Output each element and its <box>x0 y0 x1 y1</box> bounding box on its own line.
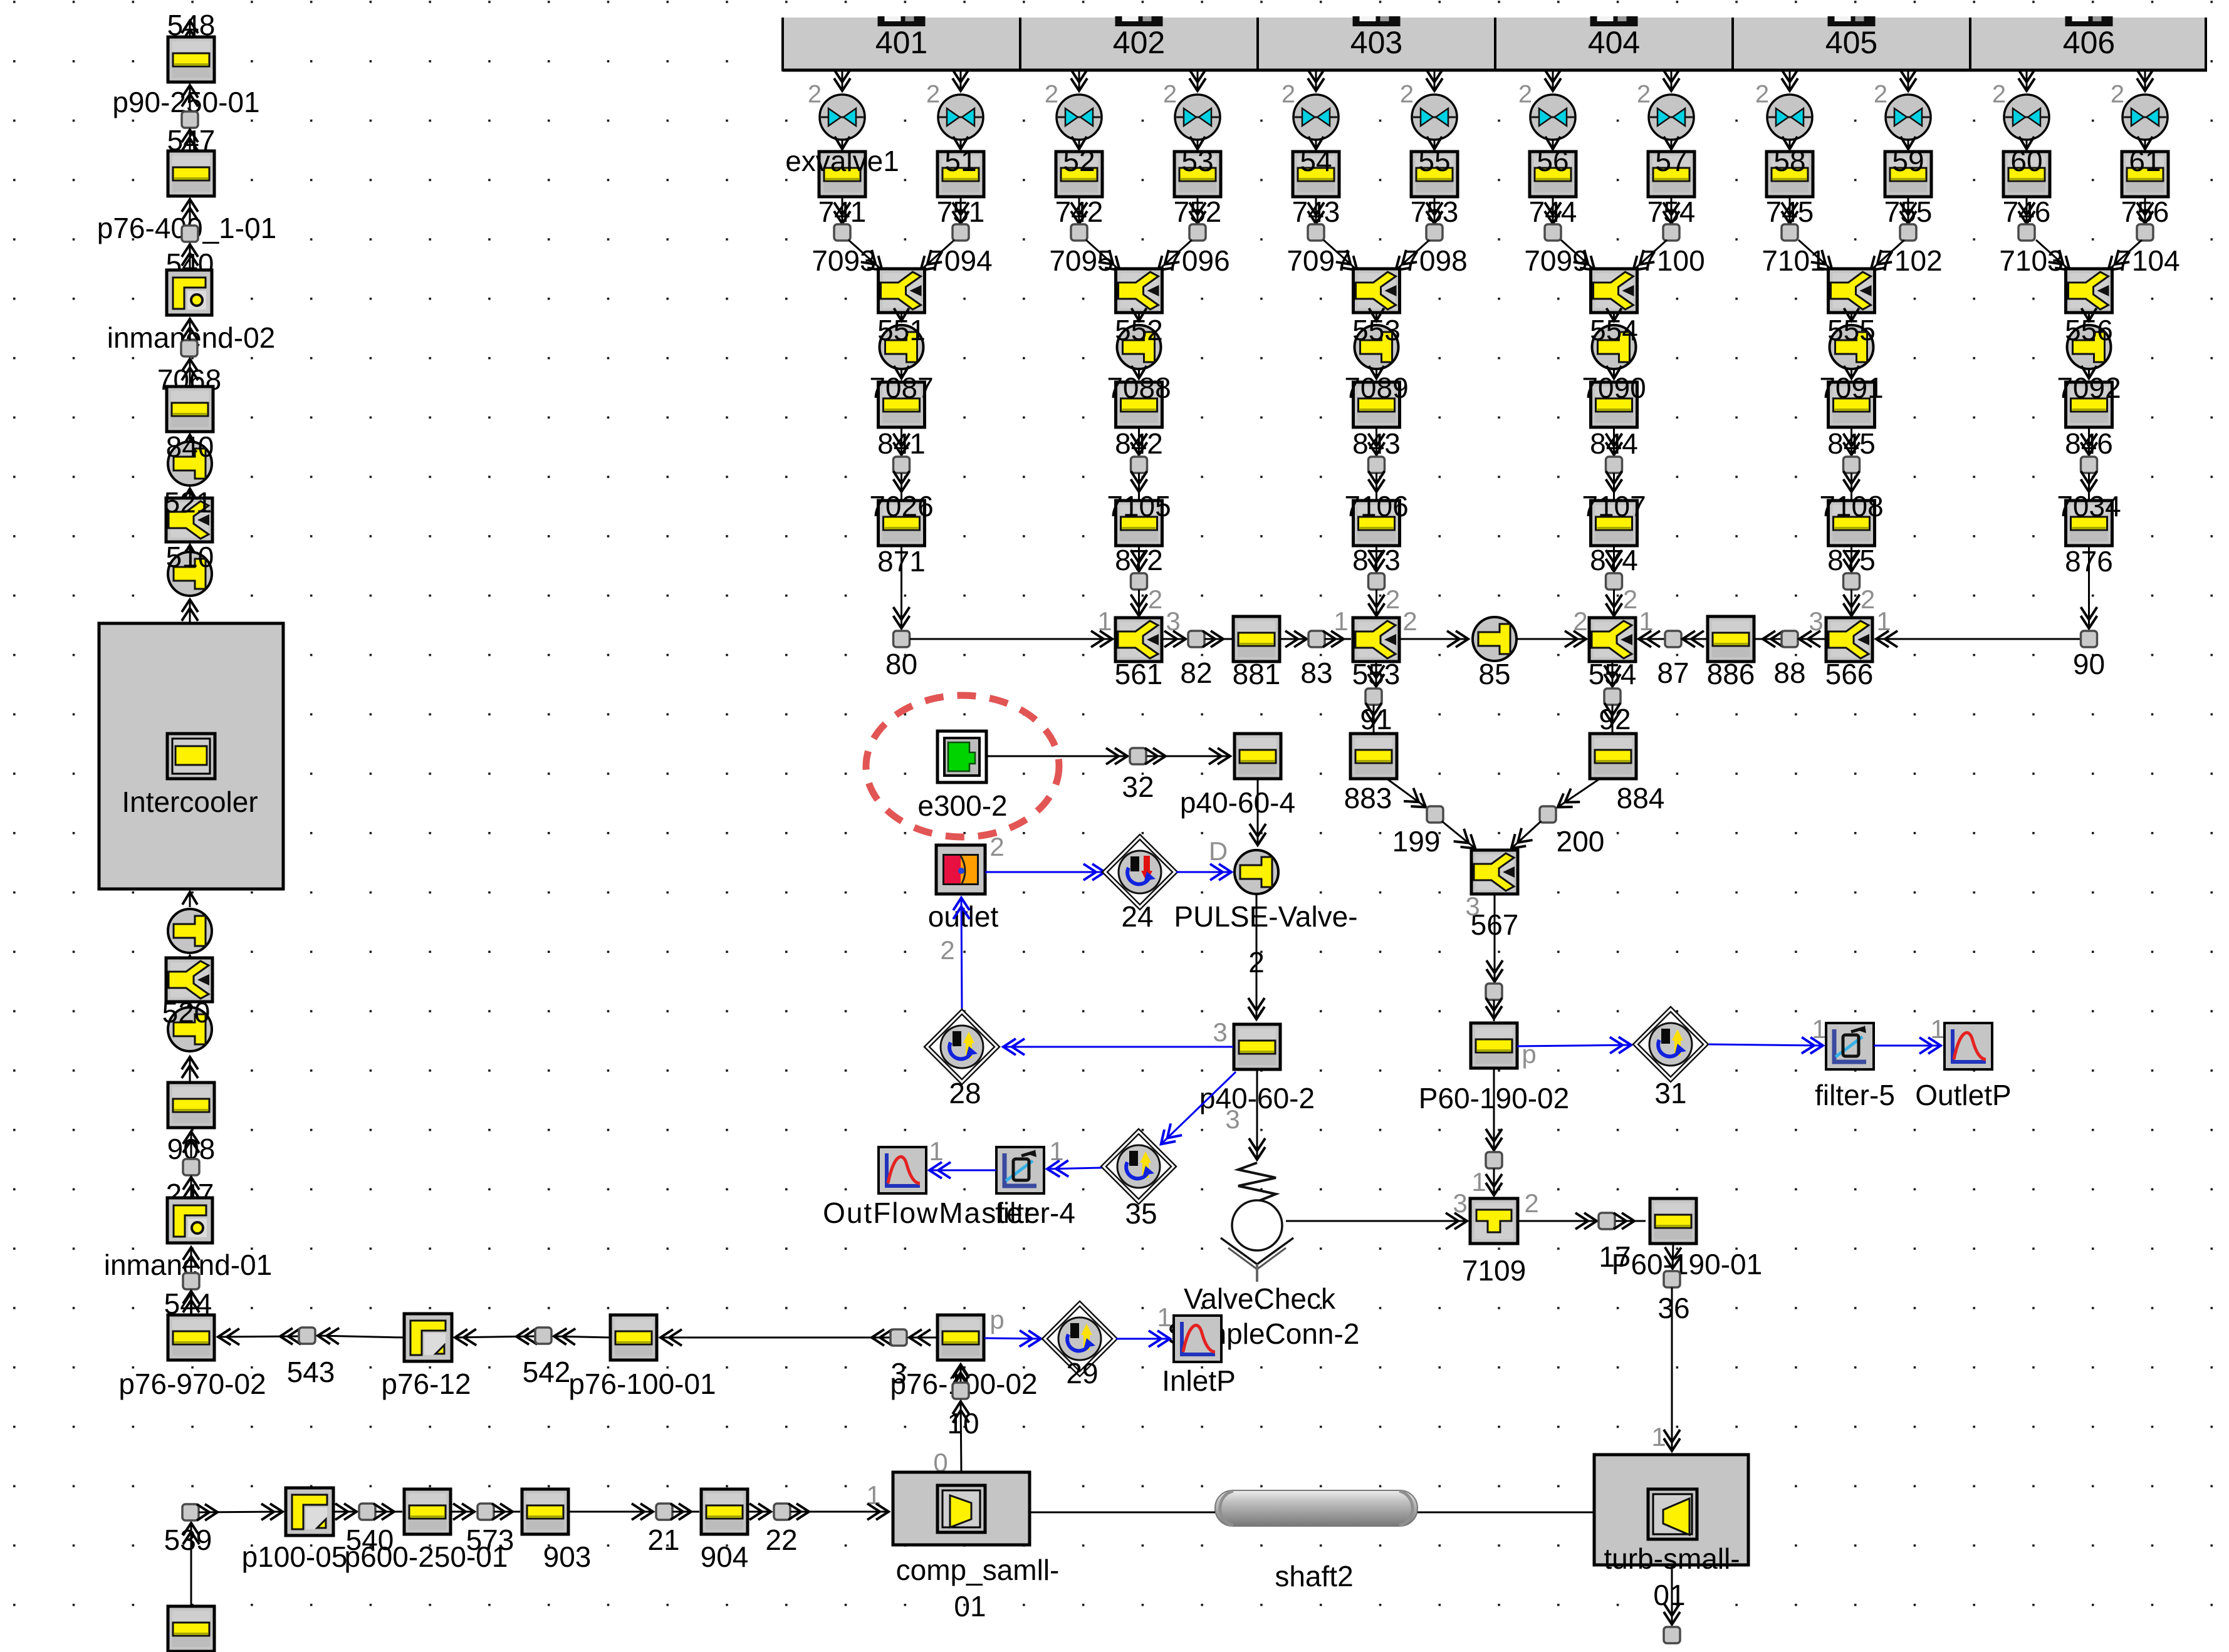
svg-text:405: 405 <box>1825 25 1877 60</box>
wire junction 566 to node 88 <box>1798 638 1826 640</box>
manifold end inmanend-02 <box>167 270 212 315</box>
svg-text:7109: 7109 <box>1462 1254 1526 1287</box>
wire p600-250-01 to node 573 <box>451 1511 475 1513</box>
node 755 <box>1900 224 1916 241</box>
wire valve 7 to pipe 56 <box>1552 140 1554 149</box>
node 873 <box>1369 573 1385 590</box>
blue wire 31 to filter-5 <box>1709 1044 1824 1046</box>
wire junction to flowsplit 552 <box>1138 313 1140 321</box>
wire valve 6 to pipe 55 <box>1434 140 1436 149</box>
node 200 <box>1540 806 1556 823</box>
svg-text:31: 31 <box>1654 1077 1686 1109</box>
wire pipe 7088 to node 842 <box>1138 427 1140 455</box>
svg-text:filter-5: filter-5 <box>1815 1079 1895 1111</box>
svg-text:92: 92 <box>1599 703 1631 735</box>
pipe bend p76-12 <box>404 1314 452 1361</box>
shaft link shaft2 to turbine <box>1417 1512 1594 1514</box>
wire elbow 540 to node <box>189 244 191 269</box>
wire cylinder 404 to valve 8 <box>1671 71 1673 91</box>
wire flowsplit to junction <box>189 545 191 551</box>
svg-text:556: 556 <box>2065 314 2113 346</box>
pipe p40-60-4 <box>1235 734 1281 779</box>
wire pipe 7108 to node <box>1851 546 1852 572</box>
svg-text:200: 200 <box>1557 825 1605 858</box>
node 744 <box>1545 224 1561 241</box>
svg-text:p76-12: p76-12 <box>381 1368 471 1400</box>
cylinder separator 3 <box>1731 18 1734 70</box>
node 82 <box>1188 631 1204 647</box>
wire 7109 to node 17 <box>1518 1220 1597 1222</box>
svg-text:904: 904 <box>701 1540 749 1573</box>
pipe 904 <box>701 1489 748 1534</box>
wire pipe 54 to node 743 <box>1315 197 1317 224</box>
svg-text:3: 3 <box>1225 1104 1240 1134</box>
wire pipe 60 to node 746 <box>2026 197 2028 224</box>
node 539 <box>182 1504 199 1520</box>
pipe 886 <box>1708 616 1754 662</box>
wire pipe 904 to node 22 <box>748 1511 771 1513</box>
svg-text:7092: 7092 <box>2057 371 2121 404</box>
svg-text:7091: 7091 <box>1819 371 1883 404</box>
cylinder separator 1 <box>1256 18 1259 70</box>
wire pipe 7092 to node 846 <box>2088 427 2090 455</box>
svg-text:7090: 7090 <box>1582 371 1646 404</box>
exhaust valve 3 <box>1057 95 1102 140</box>
svg-text:2: 2 <box>1148 584 1162 614</box>
svg-text:83: 83 <box>1300 657 1332 689</box>
compressor comp_samll-01 <box>893 1472 1030 1545</box>
svg-text:1: 1 <box>1097 606 1112 636</box>
wire node 874 to manifold junction <box>1613 590 1615 616</box>
pipe 7105 <box>1116 501 1162 546</box>
pipe 7090 <box>1591 382 1637 427</box>
svg-text:7099: 7099 <box>1524 244 1588 277</box>
wire flowsplit to pipe 7091 <box>1851 369 1852 378</box>
wire cylinder 401 to valve 1 <box>842 71 843 91</box>
wire pipe 59 to node 755 <box>1908 197 1909 224</box>
node 844 <box>1606 457 1622 473</box>
svg-text:539: 539 <box>164 1524 212 1556</box>
node 80 <box>894 631 910 647</box>
svg-text:7088: 7088 <box>1107 371 1171 404</box>
svg-text:554: 554 <box>1590 314 1638 346</box>
wire pipe exvalve1 to node 741 <box>842 197 843 224</box>
wire p40-60-4 to PULSE valve <box>1257 779 1259 846</box>
turbine outlet node <box>1664 1627 1680 1643</box>
svg-text:1: 1 <box>1651 1422 1666 1452</box>
pipe 51 <box>937 152 984 197</box>
svg-text:510: 510 <box>166 541 214 573</box>
wire junction to flowsplit 554 <box>1613 313 1615 321</box>
wire P60-190-01 to node 36 <box>1673 1244 1673 1269</box>
wire node 199 to junction 567 <box>1442 821 1476 849</box>
wire pipe 7026 to node 80 <box>900 546 902 629</box>
cylinder separator 0 <box>1019 18 1021 70</box>
wire bottom pipe to node 539 <box>191 1522 192 1605</box>
injector icon cylinder 405 <box>1828 16 1876 26</box>
pipe 7108 <box>1829 501 1875 546</box>
wire valve 1 to pipe exvalve1 <box>842 140 843 149</box>
node 542 <box>535 1327 551 1344</box>
svg-text:exvalve1: exvalve1 <box>785 145 899 177</box>
svg-text:1: 1 <box>929 1136 943 1166</box>
svg-text:566: 566 <box>1825 658 1874 690</box>
svg-text:7026: 7026 <box>869 490 933 522</box>
wire pipe 56 to node 744 <box>1552 197 1554 224</box>
wire 553 to node below <box>1376 662 1377 687</box>
wire e300-2 to node 32 <box>986 756 1128 757</box>
wire node to pipe 883 <box>1373 705 1375 733</box>
wire node to junction 3 right <box>1396 240 1430 271</box>
sensor 35 <box>1101 1129 1176 1204</box>
wire checkvalve to 7109 <box>1286 1220 1468 1222</box>
node 743 <box>1308 224 1324 241</box>
wire node 544 to inmanend-01 <box>191 1247 192 1273</box>
wire cylinder 403 to valve 5 <box>1315 71 1317 91</box>
node 753 <box>1426 224 1443 241</box>
pipe inlet bottom <box>168 1606 214 1651</box>
wire p100-05 to node 540 <box>333 1511 357 1513</box>
svg-text:2: 2 <box>1623 584 1637 614</box>
svg-text:55: 55 <box>1418 145 1450 177</box>
wire node to junction 5 left <box>1798 240 1833 271</box>
wire node 10 to p76-100-02 <box>960 1365 962 1383</box>
node 742 <box>1071 224 1087 241</box>
wire node 843 to pipe 7106 <box>1376 473 1377 501</box>
pipe 60 <box>2003 152 2050 197</box>
svg-text:2: 2 <box>1992 81 2006 108</box>
node 543 <box>299 1327 315 1344</box>
wire node 542 to p76-12 <box>454 1336 535 1338</box>
turbine turb-small-01 <box>1594 1455 1748 1565</box>
flowsplit 551 <box>880 325 924 369</box>
pipe p600-250-01 <box>404 1489 451 1534</box>
svg-text:52: 52 <box>1063 145 1095 177</box>
wire junction to flowsplit 555 <box>1851 313 1852 321</box>
wire p76-100-01 to node 542 <box>553 1336 610 1338</box>
node 751 <box>953 224 969 241</box>
svg-text:520: 520 <box>162 996 211 1029</box>
svg-text:filter-4: filter-4 <box>995 1197 1075 1229</box>
svg-text:7095: 7095 <box>1049 244 1113 277</box>
wire node 842 to pipe 7105 <box>1138 473 1140 501</box>
svg-text:2: 2 <box>989 832 1004 861</box>
exhaust valve 10 <box>1886 95 1931 140</box>
node 90 <box>2081 631 2097 647</box>
wire 554 to node below <box>1612 662 1614 687</box>
wire 553 to flowsplit 85 <box>1399 638 1469 640</box>
wire flowsplit to pipe 7087 <box>900 369 902 378</box>
svg-text:88: 88 <box>1773 657 1805 689</box>
wire pipe 903 to node 21 <box>569 1511 654 1513</box>
svg-text:comp_samll-: comp_samll- <box>896 1554 1060 1586</box>
wire flowsplit 520 to junction <box>189 1004 191 1006</box>
wire node to junction 2 right <box>1158 240 1193 271</box>
wire node to pipe 547 <box>189 199 191 226</box>
svg-text:2: 2 <box>940 935 954 965</box>
node 841 <box>894 457 910 473</box>
svg-text:2: 2 <box>1045 81 1058 108</box>
svg-text:7097: 7097 <box>1287 244 1350 277</box>
svg-text:01: 01 <box>1653 1579 1685 1611</box>
node 83 <box>1308 631 1325 647</box>
wire cylinder 401 to valve 2 <box>960 71 962 91</box>
wire P60-190-02 to node <box>1493 1069 1495 1151</box>
wire cylinder 404 to valve 7 <box>1552 71 1554 91</box>
wire out of pipe 548 <box>189 20 191 37</box>
wire node to pipe 884 <box>1612 705 1614 733</box>
wire node 90 to junction 566 <box>1876 638 2080 640</box>
wire valve 4 to pipe 53 <box>1197 140 1199 149</box>
svg-text:2: 2 <box>1573 606 1587 636</box>
wire junction to flowsplit 840 <box>189 489 191 497</box>
wire valve 10 to pipe 59 <box>1908 140 1909 149</box>
svg-text:57: 57 <box>1655 145 1687 177</box>
svg-text:p100-05: p100-05 <box>242 1540 348 1573</box>
highlight ellipse around e300-2 <box>866 695 1059 837</box>
svg-text:7094: 7094 <box>928 244 992 277</box>
Intercooler block <box>99 623 283 889</box>
junction Y intake upper <box>166 498 212 542</box>
exhaust valve 6 <box>1412 95 1457 140</box>
svg-text:2: 2 <box>1402 606 1417 636</box>
wire valve 3 to pipe 52 <box>1078 140 1080 149</box>
pipe 57 <box>1648 152 1694 197</box>
pipe P60-190-01 <box>1650 1198 1696 1244</box>
wire p76-100-02 to node 3 <box>909 1337 937 1339</box>
wire cylinder 402 to valve 4 <box>1197 71 1199 91</box>
exhaust valve 5 <box>1293 95 1339 140</box>
pipe 52 <box>1056 152 1102 197</box>
svg-text:87: 87 <box>1657 657 1689 689</box>
T-junction 7109 <box>1470 1198 1518 1244</box>
node 872 <box>1131 573 1147 590</box>
injector icon cylinder 401 <box>878 16 926 26</box>
node 540b <box>359 1504 375 1520</box>
wire node 80 to junction 561 <box>910 638 1113 640</box>
node 842 <box>1131 457 1147 473</box>
wire 561 to node 82 <box>1162 638 1186 640</box>
svg-text:404: 404 <box>1588 25 1640 60</box>
wire node 873 to manifold junction <box>1376 590 1377 616</box>
wire pipe 7106 to node <box>1376 546 1377 572</box>
svg-text:53: 53 <box>1181 145 1213 177</box>
flowsplit 85 <box>1473 617 1516 661</box>
node 745 <box>1782 224 1798 241</box>
svg-text:7093: 7093 <box>812 244 875 277</box>
node 746 <box>2018 224 2035 241</box>
pipe 883 <box>1350 734 1397 779</box>
wire flowsplit 840 to pipe 7068 <box>189 435 191 440</box>
node 573 <box>478 1504 494 1520</box>
node 875 <box>1844 573 1860 590</box>
wire cylinder 405 to valve 10 <box>1908 71 1909 91</box>
pipe p76-100-02 <box>937 1315 984 1360</box>
wire valve 11 to pipe 60 <box>2026 140 2028 149</box>
svg-text:p76-100-01: p76-100-01 <box>568 1368 716 1400</box>
shaft link compressor to shaft2 <box>1030 1512 1215 1514</box>
wire PULSE valve to pipe p40-60-2 <box>1256 894 1258 1020</box>
svg-text:54: 54 <box>1300 145 1332 177</box>
pipe 908 <box>168 1083 214 1128</box>
pipe 7089 <box>1354 382 1400 427</box>
svg-text:543: 543 <box>287 1356 335 1388</box>
svg-text:ValveCheck: ValveCheck <box>1184 1282 1336 1315</box>
svg-text:p40-60-4: p40-60-4 <box>1180 786 1295 819</box>
pipe 7091 <box>1829 382 1875 427</box>
wire pipe 52 to node 742 <box>1078 197 1080 224</box>
pipe P60-190-02 <box>1471 1023 1517 1068</box>
junction Y566 <box>1826 618 1872 662</box>
svg-text:7106: 7106 <box>1344 490 1408 522</box>
junction Y553 <box>1353 618 1399 662</box>
wire node to junction 3 left <box>1323 240 1358 271</box>
svg-text:PULSE-Valve-: PULSE-Valve- <box>1174 900 1357 933</box>
svg-text:2: 2 <box>1861 584 1875 614</box>
pipe 7106 <box>1354 501 1400 546</box>
wire pipe 7091 to node 845 <box>1851 427 1852 455</box>
blue wire sensor 28 to outlet <box>961 897 962 1009</box>
junction Y intake lower <box>166 958 212 1002</box>
pipe p76-100-01 <box>610 1315 657 1360</box>
wire node 36 to turbine <box>1671 1287 1673 1452</box>
wire pipe 881 to node 83 <box>1280 638 1307 640</box>
wire junction to flowsplit 553 <box>1376 313 1377 321</box>
wire node to junction 2 left <box>1086 240 1120 271</box>
node 874 <box>1606 573 1622 590</box>
flowsplit 556 <box>2067 325 2111 369</box>
wire 567 to node <box>1494 894 1496 982</box>
svg-text:56: 56 <box>1537 145 1569 177</box>
wire node 845 to pipe 7108 <box>1851 473 1852 501</box>
svg-text:561: 561 <box>1115 658 1163 690</box>
wire intercooler to flowsplit <box>189 599 191 623</box>
svg-text:2: 2 <box>1386 584 1400 614</box>
wire cylinder 402 to valve 3 <box>1078 71 1080 91</box>
blue wire p40-60-2 to sensor 35 <box>1161 1072 1236 1145</box>
pipe 903 <box>522 1489 568 1534</box>
wire 85 to junction 554 <box>1516 638 1587 640</box>
node 756 <box>2137 224 2153 241</box>
pipe 54 <box>1293 152 1339 197</box>
wire node 3 to p76-100-01 <box>660 1337 890 1339</box>
svg-text:29: 29 <box>1066 1357 1098 1390</box>
wire node 540 to pipe p600-250-01 <box>375 1511 402 1513</box>
blue wire 35 to filter-4 <box>1047 1168 1102 1169</box>
svg-text:573: 573 <box>466 1524 514 1556</box>
wire cylinder 405 to valve 9 <box>1789 71 1791 91</box>
pipe 55 <box>1411 152 1458 197</box>
svg-text:1: 1 <box>1471 1167 1486 1197</box>
wire node to T-junction 7109 <box>1493 1168 1495 1196</box>
svg-text:e300-2: e300-2 <box>917 789 1007 822</box>
wire pipe 886 to node 87 <box>1682 638 1707 640</box>
svg-text:7098: 7098 <box>1403 244 1467 277</box>
svg-text:7107: 7107 <box>1582 490 1646 522</box>
wire cylinder 406 to valve 12 <box>2144 71 2146 91</box>
junction Y merge cylinder 404 <box>1591 269 1637 313</box>
blue wire 24 to PULSE valve <box>1176 871 1232 873</box>
wire node to junction 1 left <box>848 240 883 271</box>
svg-text:90: 90 <box>2073 648 2105 680</box>
flowsplit 840 <box>168 442 212 486</box>
flowsplit 553 <box>1355 325 1399 369</box>
wire pipe 57 to node 754 <box>1671 197 1673 224</box>
svg-text:544: 544 <box>164 1287 212 1320</box>
pipe 881 <box>1233 616 1280 662</box>
wire pipe 7107 to node <box>1613 546 1615 572</box>
wire node 83 to junction 553 <box>1325 638 1351 640</box>
wire node to junction 6 left <box>2036 240 2070 271</box>
svg-text:401: 401 <box>875 25 927 60</box>
wire node 573 to pipe 903 <box>494 1511 520 1513</box>
svg-text:58: 58 <box>1773 145 1805 177</box>
wire pipe 883 to node 199 <box>1387 779 1426 808</box>
cylinder separator 4 <box>1969 18 1971 70</box>
wire node 875 to manifold junction <box>1851 590 1852 616</box>
node below 553 <box>1365 688 1382 705</box>
svg-text:2: 2 <box>808 81 822 108</box>
svg-text:402: 402 <box>1113 25 1165 60</box>
wire flowsplit to pipe 7089 <box>1376 369 1377 378</box>
pipe 7088 <box>1116 382 1162 427</box>
svg-text:7103: 7103 <box>1999 244 2063 277</box>
wire pipe 908 to flowsplit 520 <box>189 1056 191 1082</box>
node 544 <box>183 1273 199 1289</box>
flowsplit 554 <box>1592 325 1636 369</box>
svg-text:7102: 7102 <box>1878 244 1942 277</box>
wire compressor to node 10 <box>961 1401 961 1471</box>
wire turbine outlet to node <box>1671 1565 1673 1625</box>
blue wire 29 to InletP <box>1116 1338 1171 1340</box>
svg-text:1: 1 <box>1049 1136 1063 1166</box>
svg-text:51: 51 <box>944 145 976 177</box>
flowsplit 552 <box>1117 325 1161 369</box>
pipe 547 <box>168 151 214 196</box>
svg-text:883: 883 <box>1344 782 1392 814</box>
svg-text:59: 59 <box>1892 145 1924 177</box>
svg-text:2: 2 <box>1163 81 1177 108</box>
svg-text:1: 1 <box>1639 606 1653 636</box>
node under 548 <box>182 112 198 128</box>
node 754 <box>1663 224 1679 241</box>
pipe bend p100-05 <box>286 1488 333 1535</box>
pipe p40-60-2 <box>1234 1024 1280 1069</box>
svg-text:2: 2 <box>1637 81 1651 108</box>
wire cylinder 403 to valve 6 <box>1434 71 1436 91</box>
pipe p76-970-02 <box>168 1315 214 1360</box>
svg-text:551: 551 <box>877 314 926 346</box>
node below 554 <box>1604 688 1621 705</box>
svg-text:7100: 7100 <box>1641 244 1704 277</box>
svg-text:35: 35 <box>1125 1197 1157 1230</box>
flowsplit PULSE-Valve-2 <box>1235 850 1278 894</box>
node 17 <box>1599 1213 1615 1229</box>
pipe 53 <box>1174 152 1221 197</box>
svg-text:7105: 7105 <box>1107 490 1171 522</box>
wire node to junction 1 right <box>921 240 955 271</box>
wire node 87 to junction 554 <box>1638 638 1665 640</box>
svg-text:840: 840 <box>166 430 214 463</box>
wire node 539 to p100-05 <box>199 1512 283 1512</box>
svg-text:2: 2 <box>926 81 940 108</box>
node 32 <box>1130 748 1146 764</box>
svg-text:403: 403 <box>1350 25 1402 60</box>
svg-text:1: 1 <box>1812 1014 1826 1044</box>
plot OutletP <box>1945 1023 1992 1069</box>
svg-text:22: 22 <box>765 1524 797 1556</box>
wire pipe 55 to node 753 <box>1434 197 1436 224</box>
